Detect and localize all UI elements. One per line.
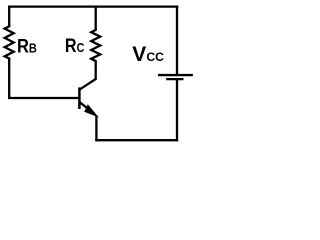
svg-text:VCC: VCC — [132, 43, 164, 66]
transistor Q1 base bar — [78, 87, 81, 109]
transistor Q1 emitter shaft — [80, 102, 92, 112]
wire emitter down — [95, 116, 97, 141]
wire right vertical lower — [176, 79, 178, 141]
svg-text:RB: RB — [17, 35, 37, 56]
wire right vertical upper — [176, 5, 178, 75]
wire left vertical upper — [8, 5, 10, 26]
wire left vertical lower and base wire — [9, 59, 79, 99]
svg-text:RC: RC — [65, 35, 85, 57]
wire RC vertical upper — [95, 5, 97, 29]
transistor Q1 emitter arrowhead — [84, 104, 99, 117]
battery positive long plate — [158, 74, 193, 76]
resistor RB — [5, 25, 14, 60]
battery negative short plate — [166, 78, 183, 80]
resistor RC — [91, 29, 100, 63]
wire collector vertical and diagonal to transistor — [80, 61, 96, 90]
wire top rail — [8, 5, 178, 7]
wire bottom rail — [95, 139, 178, 141]
